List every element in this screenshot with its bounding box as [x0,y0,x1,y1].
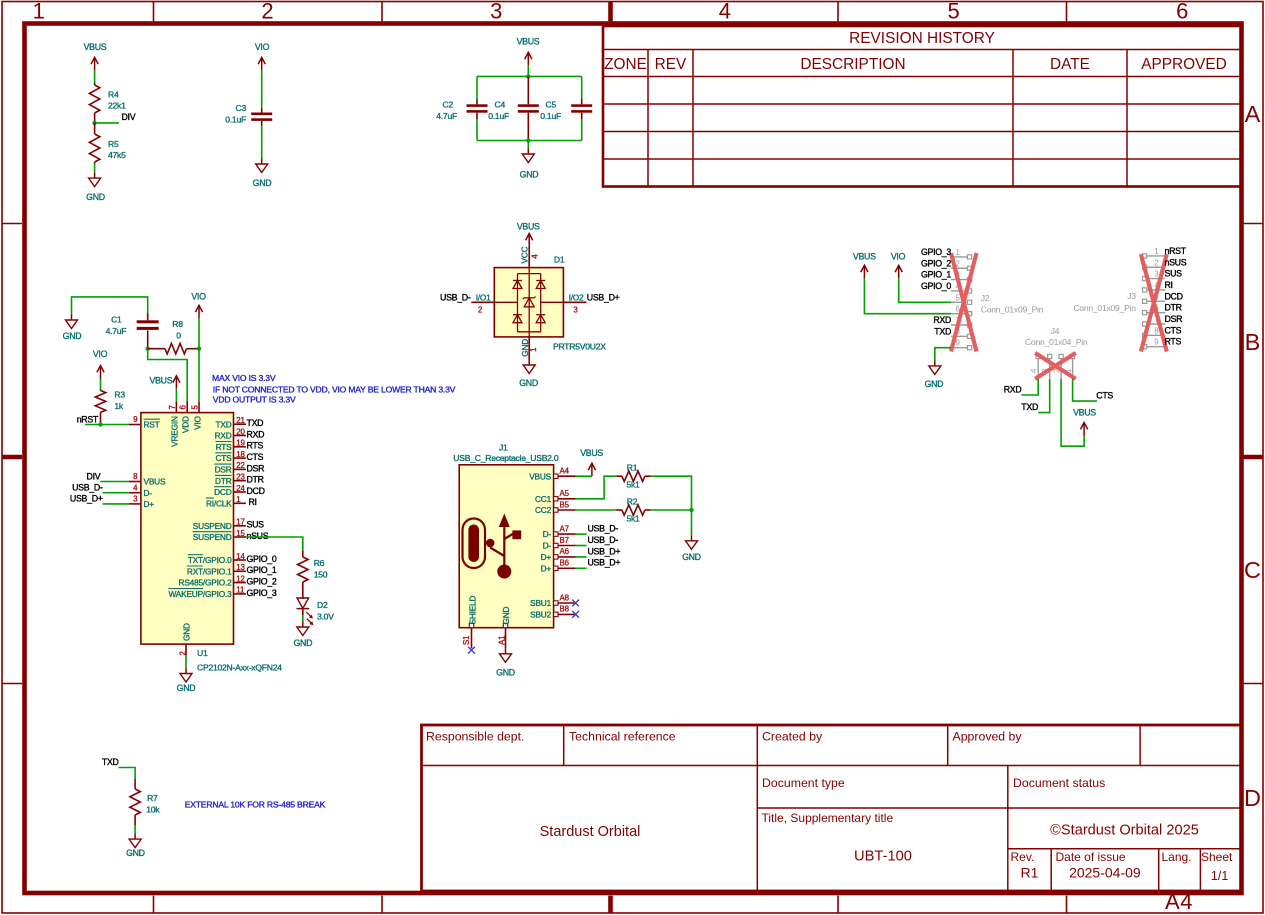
svg-text:GND: GND [253,178,272,188]
svg-text:5k1: 5k1 [626,514,640,524]
svg-text:RXD: RXD [247,429,265,439]
LED D2 [297,598,335,625]
wire [175,389,177,402]
capacitor C3 [225,103,272,126]
svg-text:GPIO_0: GPIO_0 [247,554,277,564]
svg-text:DTR: DTR [247,475,264,485]
net RXD (U1) [247,429,265,439]
svg-text:R2: R2 [627,497,638,507]
net TXD (J2) [934,326,951,336]
svg-text:A7: A7 [560,524,569,533]
svg-text:3: 3 [133,495,138,504]
svg-text:TXT/GPIO.0: TXT/GPIO.0 [188,555,232,565]
svg-text:TXD: TXD [102,757,119,767]
svg-text:Created by: Created by [762,730,823,744]
note MAX VIO [212,373,456,404]
svg-text:1: 1 [956,248,960,257]
svg-text:VBUS: VBUS [853,251,876,261]
svg-text:VBUS: VBUS [517,222,540,232]
junction [526,138,530,142]
svg-text:VIO: VIO [93,349,108,359]
net RXD (J2) [933,315,951,325]
wire [899,278,951,302]
svg-text:3.0V: 3.0V [317,612,334,622]
svg-text:nRST: nRST [77,414,99,424]
svg-text:A4: A4 [560,467,570,476]
power VBUS (divider) [84,42,107,70]
power VIO (U1) [191,292,206,319]
wire [864,278,951,313]
net USB_D- (D1) [440,292,471,302]
svg-text:APPROVED: APPROVED [1141,56,1227,73]
svg-text:CTS: CTS [247,452,264,462]
net USB_D+ (J1) [588,558,621,568]
net DSR (U1) [247,463,265,473]
svg-text:4: 4 [719,0,731,24]
wire [527,141,529,149]
svg-text:RXT/GPIO.1: RXT/GPIO.1 [187,566,232,576]
svg-text:C: C [1244,557,1261,583]
svg-text:1: 1 [529,348,538,352]
svg-text:GND: GND [182,623,192,641]
svg-text:GND: GND [177,683,196,693]
svg-text:Conn_01x09_Pin: Conn_01x09_Pin [1073,303,1136,313]
svg-text:DSR: DSR [247,463,265,473]
svg-text:REV: REV [655,56,687,73]
svg-text:VIO: VIO [255,42,270,52]
svg-text:TXD: TXD [934,326,951,336]
resistor R8 [148,319,199,354]
node DIV [122,112,136,122]
svg-text:5: 5 [947,0,959,24]
svg-text:21: 21 [236,416,244,425]
svg-text:11: 11 [236,586,244,595]
svg-text:Stardust Orbital: Stardust Orbital [540,824,641,840]
svg-text:D-: D- [543,529,552,539]
svg-text:RI: RI [1165,280,1173,290]
wire [691,510,693,535]
svg-text:R1: R1 [627,463,638,473]
svg-text:WAKEUP/GPIO.3: WAKEUP/GPIO.3 [168,589,232,599]
svg-text:B7: B7 [560,536,569,545]
svg-text:GND: GND [293,638,312,648]
power VBUS (J2) [853,251,876,278]
IC U1 CP2102N-Axx-xQFN24 [129,401,283,672]
svg-text:J1: J1 [499,442,508,452]
svg-text:SUS: SUS [1165,269,1183,279]
svg-text:GPIO_3: GPIO_3 [247,588,277,598]
svg-text:GND: GND [496,668,515,678]
svg-text:SHIELD: SHIELD [467,596,477,625]
svg-text:0.1uF: 0.1uF [225,115,246,125]
svg-text:DESCRIPTION: DESCRIPTION [800,56,905,73]
svg-text:15: 15 [236,529,245,538]
svg-text:VBUS: VBUS [84,42,107,52]
no-connect SBU2 [572,611,579,618]
wire [576,556,587,558]
svg-text:0.1uF: 0.1uF [488,111,509,121]
wire [119,768,136,780]
wire [198,318,200,401]
net CTS (J4) [1096,391,1113,401]
svg-text:A: A [1245,101,1261,127]
svg-text:12: 12 [236,574,244,583]
ground GND (cap bank) [520,149,539,180]
svg-text:D1: D1 [554,255,565,265]
net GPIO_1 (J2) [921,270,951,280]
svg-text:VIO: VIO [192,415,202,429]
svg-text:RS485/GPIO.2: RS485/GPIO.2 [179,578,233,588]
svg-text:I/O1: I/O1 [476,292,491,302]
svg-text:VBUS: VBUS [580,448,603,458]
svg-text:R8: R8 [172,319,183,329]
svg-text:C3: C3 [236,103,247,113]
svg-text:VBUS: VBUS [150,375,173,385]
svg-text:VDD: VDD [181,416,191,433]
svg-text:VIO: VIO [191,292,206,302]
svg-text:A4: A4 [1165,889,1193,914]
svg-text:C4: C4 [495,100,506,110]
wire [100,379,102,390]
svg-text:USB_D-: USB_D- [588,524,619,534]
svg-text:D2: D2 [317,600,328,610]
svg-text:DSR: DSR [1165,314,1183,324]
svg-text:C5: C5 [546,100,557,110]
net DTR (U1) [247,475,264,485]
ground GND (R7) [126,834,145,858]
svg-text:CC1: CC1 [535,494,552,504]
svg-text:GPIO_2: GPIO_2 [921,258,951,268]
wire [576,475,592,477]
resistor R7 [130,779,160,826]
svg-text:4.7uF: 4.7uF [436,111,457,121]
net TXD (J4) [1021,402,1038,412]
wire [72,297,148,315]
wire [935,348,951,361]
svg-text:0: 0 [176,331,181,341]
net GPIO_3 (U1) [247,588,277,598]
svg-text:19: 19 [236,439,245,448]
svg-text:SBU1: SBU1 [530,598,551,608]
capacitor C4 [488,76,539,140]
DNP cross J2 [951,253,977,352]
svg-text:GND: GND [519,378,538,388]
resistor R6 [298,551,328,599]
svg-text:A5: A5 [560,489,570,498]
ground GND (J1 A1) [496,648,515,677]
wire [576,533,587,535]
wire bus top rail [477,76,582,99]
svg-text:nSUS: nSUS [247,531,269,541]
svg-text:20: 20 [236,427,245,436]
svg-text:Rev.: Rev. [1011,850,1035,864]
wire [103,503,129,505]
power VBUS (D1) [517,222,540,247]
svg-text:CC2: CC2 [535,505,552,515]
wire [651,476,692,510]
svg-text:A6: A6 [560,547,570,556]
power VBUS (cap bank) [517,37,540,66]
svg-text:Document status: Document status [1013,776,1105,790]
svg-text:TXD: TXD [1021,402,1038,412]
junction [146,347,150,351]
net GPIO_0 (U1) [247,554,277,564]
svg-text:RTS: RTS [247,441,264,451]
svg-text:REVISION HISTORY: REVISION HISTORY [849,30,995,47]
svg-text:R7: R7 [147,793,158,803]
resistor R4 [89,83,126,123]
svg-text:R6: R6 [314,558,325,568]
svg-text:C1: C1 [111,315,122,325]
svg-text:D-: D- [144,488,153,498]
svg-text:©Stardust Orbital 2025: ©Stardust Orbital 2025 [1050,823,1199,839]
wire [1021,379,1038,395]
wire [134,826,136,834]
svg-text:14: 14 [236,552,245,561]
svg-text:DCD: DCD [247,486,265,496]
net USB_D- (J1) [588,535,619,545]
wire [103,492,129,494]
svg-text:C2: C2 [443,100,454,110]
wire CC2 [576,509,617,511]
svg-text:5k1: 5k1 [626,480,640,490]
svg-text:USB_D-: USB_D- [588,535,619,545]
DNP cross J4 [1035,353,1076,379]
net GPIO_0 (J2) [921,281,951,291]
power VIO (J2) [891,251,906,278]
svg-text:GPIO_2: GPIO_2 [247,577,277,587]
svg-text:SUSPEND: SUSPEND [193,532,232,542]
junction DIV [92,121,96,125]
svg-text:47k5: 47k5 [108,150,126,160]
svg-text:GND: GND [682,552,701,562]
svg-text:B6: B6 [560,559,570,568]
ground GND (C1) [63,315,82,342]
svg-text:nRST: nRST [1165,246,1187,256]
junction [98,422,102,426]
svg-text:VIO: VIO [891,251,906,261]
net RI (J3) [1165,280,1173,290]
svg-text:4: 4 [1029,368,1038,373]
svg-text:1k: 1k [114,401,124,411]
svg-text:D+: D+ [541,563,552,573]
svg-text:R1: R1 [1021,865,1039,881]
junction [526,74,530,78]
svg-text:USB_D+: USB_D+ [588,546,621,556]
svg-text:DCD: DCD [214,487,232,497]
capacitor C5 [540,99,592,121]
svg-text:DSR: DSR [215,465,232,475]
svg-text:R4: R4 [108,90,119,100]
svg-text:R3: R3 [114,390,125,400]
svg-text:USB_D+: USB_D+ [70,494,103,504]
svg-text:1/1: 1/1 [1211,869,1228,883]
wire [261,70,263,108]
svg-text:VBUS: VBUS [1073,408,1096,418]
wire [576,567,587,569]
svg-text:RI/CLK: RI/CLK [206,498,232,508]
svg-text:7: 7 [168,405,177,409]
svg-text:6: 6 [179,405,188,410]
svg-text:D+: D+ [144,499,155,509]
svg-text:Approved by: Approved by [953,730,1023,744]
svg-text:CTS: CTS [1165,325,1182,335]
svg-text:23: 23 [236,473,245,482]
svg-text:VBUS: VBUS [529,471,551,481]
no-connect SBU1 [572,600,579,607]
svg-text:2: 2 [1154,258,1158,267]
svg-text:22: 22 [236,461,244,470]
net SUS (J3) [1165,269,1183,279]
net SUS (U1) [247,520,265,530]
ground GND (divider) [86,173,105,202]
svg-text:Title, Supplementary title: Title, Supplementary title [762,811,894,825]
net nRST (J3) [1165,246,1187,256]
junction [689,508,693,512]
svg-text:150: 150 [314,570,328,580]
DNP cross J3 [1141,254,1167,351]
svg-text:VBUS: VBUS [144,477,166,487]
wire nSUS to R6 [246,537,303,551]
svg-text:3: 3 [490,0,502,24]
svg-text:1: 1 [33,0,45,24]
net USB_D+ (U1) [70,494,103,504]
net CTS (J3) [1165,325,1182,335]
svg-text:EXTERNAL 10K FOR RS-485 BREAK: EXTERNAL 10K FOR RS-485 BREAK [185,800,326,810]
svg-text:18: 18 [236,450,245,459]
resistor R2 [616,497,651,524]
svg-text:DTR: DTR [1165,303,1182,313]
wire [261,126,263,159]
svg-text:nSUS: nSUS [1165,257,1187,267]
svg-text:Date of issue: Date of issue [1056,850,1126,864]
net USB_D- (U1) [72,483,103,493]
svg-text:A1: A1 [497,636,506,645]
capacitor C2 [436,99,487,121]
svg-text:R5: R5 [108,139,119,149]
svg-text:VREGIN: VREGIN [170,416,180,447]
svg-text:4.7uF: 4.7uF [106,326,127,336]
svg-text:10k: 10k [146,805,160,815]
connector J3 Conn_01x09_Pin (DNP) [1073,247,1165,349]
svg-text:DIV: DIV [87,471,101,481]
svg-text:6: 6 [1176,0,1188,24]
svg-text:GND: GND [63,331,82,341]
svg-text:GND: GND [501,606,511,624]
svg-text:J4: J4 [1051,326,1060,336]
net GPIO_3 (J2) [921,247,951,257]
note RS-485 [185,800,326,810]
power VBUS (J4) [1073,408,1096,436]
net DCD (U1) [247,486,265,496]
net USB_D+ (D1) [587,292,620,302]
svg-text:GND: GND [86,192,105,202]
svg-text:GPIO_1: GPIO_1 [247,565,277,575]
svg-text:9: 9 [133,415,138,424]
ground GND (C3) [253,159,272,189]
diode D1 PRTR5V0U2X [471,246,606,359]
ground GND (J2) [925,360,944,389]
net DTR (J3) [1165,303,1182,313]
net RTS (U1) [247,441,264,451]
svg-text:0.1uF: 0.1uF [540,111,561,121]
ground GND (U1 pin2) [177,655,196,693]
svg-text:2: 2 [261,0,273,24]
svg-text:Document type: Document type [762,776,845,790]
wire [100,481,128,483]
svg-text:USB_D+: USB_D+ [588,558,621,568]
net TXD (R7) [102,757,119,767]
connector J4 Conn_01x04_Pin (DNP) [1025,326,1088,379]
svg-text:USB_D+: USB_D+ [587,292,620,302]
svg-text:4: 4 [530,254,539,259]
svg-text:IF NOT CONNECTED TO VDD, VIO M: IF NOT CONNECTED TO VDD, VIO MAY BE LOWE… [213,384,456,394]
svg-text:B: B [1245,329,1261,355]
svg-text:VDD OUTPUT IS 3.3V: VDD OUTPUT IS 3.3V [213,394,296,404]
connector J1 USB_C_Receptacle_USB2.0 [453,442,575,648]
svg-text:D: D [1244,785,1261,811]
svg-text:DIV: DIV [122,112,136,122]
ground GND (R1 R2) [682,535,701,562]
svg-text:CP2102N-Axx-xQFN24: CP2102N-Axx-xQFN24 [197,662,282,672]
net USB_D+ (J1) [588,546,621,556]
svg-text:D+: D+ [541,552,552,562]
svg-text:I/O2: I/O2 [569,292,584,302]
wire [94,70,96,84]
svg-text:Technical reference: Technical reference [569,730,676,744]
svg-text:Conn_01x04_Pin: Conn_01x04_Pin [1025,337,1088,347]
svg-text:Conn_01x09_Pin: Conn_01x09_Pin [981,304,1044,314]
wire [1061,379,1084,446]
svg-text:RXD: RXD [933,315,951,325]
wire CC1 [576,476,617,499]
svg-text:Sheet: Sheet [1201,850,1233,864]
power VIO (C3) [255,42,270,70]
wire [85,424,129,426]
svg-text:RXD: RXD [1004,384,1022,394]
junction [197,347,201,351]
svg-text:B8: B8 [560,605,570,614]
resistor R1 [616,463,651,490]
svg-text:UBT-100: UBT-100 [854,849,912,865]
svg-text:A8: A8 [560,593,570,602]
net DIV (U1) [87,471,101,481]
wire [527,65,529,76]
svg-text:CTS: CTS [216,453,233,463]
net USB_D- (J1) [588,524,619,534]
wire [651,509,692,511]
svg-text:22k1: 22k1 [108,101,126,111]
svg-text:1: 1 [236,495,240,504]
svg-text:SUS: SUS [247,520,265,530]
power VIO (R3) [93,349,108,379]
svg-text:24: 24 [236,484,245,493]
net RXD (J4) [1004,384,1022,394]
wire bus bottom rail [477,119,582,141]
svg-text:SUSPEND: SUSPEND [193,521,232,531]
wire [94,164,96,173]
svg-text:GPIO_1: GPIO_1 [921,270,951,280]
svg-text:DTR: DTR [215,476,232,486]
svg-text:GPIO_3: GPIO_3 [921,247,951,257]
svg-text:USB_D-: USB_D- [72,483,103,493]
svg-text:J2: J2 [981,293,990,303]
svg-text:8: 8 [133,472,138,481]
net TXD (U1) [247,418,264,428]
svg-text:ZONE: ZONE [604,56,647,73]
svg-text:TXD: TXD [216,419,232,429]
svg-text:USB_C_Receptacle_USB2.0: USB_C_Receptacle_USB2.0 [453,453,559,463]
